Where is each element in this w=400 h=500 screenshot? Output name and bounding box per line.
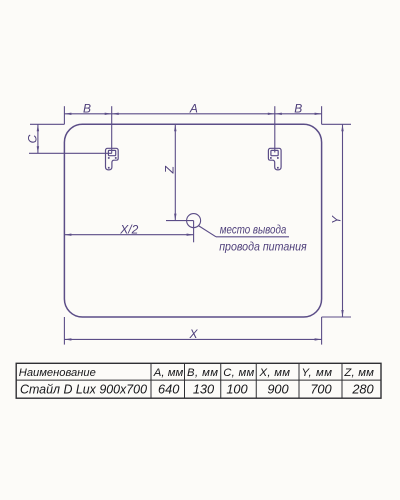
circle center vertical xyxy=(193,221,195,243)
C dimension line xyxy=(37,124,39,153)
X right extension line xyxy=(321,317,323,345)
extension line left edge xyxy=(63,106,65,124)
Y top extension line xyxy=(322,123,351,125)
mirror outline xyxy=(64,124,321,317)
svg-text:640: 640 xyxy=(158,382,180,397)
svg-text:Y: Y xyxy=(329,215,343,224)
table grid xyxy=(16,363,381,398)
arrow C top xyxy=(37,124,39,131)
svg-text:место вывода: место вывода xyxy=(220,225,286,237)
arrow B2 right xyxy=(315,113,322,115)
Y dimension line xyxy=(342,124,344,317)
svg-text:Y, мм: Y, мм xyxy=(302,367,333,379)
svg-text:B, мм: B, мм xyxy=(187,367,218,379)
leader diagonal xyxy=(198,226,216,237)
Y bottom extension line xyxy=(322,316,351,318)
svg-text:провода питания: провода питания xyxy=(219,242,307,254)
svg-text:280: 280 xyxy=(351,382,374,397)
svg-text:C: C xyxy=(26,134,40,143)
C top extension line xyxy=(30,123,64,125)
right bracket (mirrored) xyxy=(268,148,281,170)
svg-text:130: 130 xyxy=(193,382,215,397)
arrow C bottom xyxy=(37,146,39,153)
X left extension line xyxy=(63,317,65,345)
svg-text:B: B xyxy=(294,102,302,116)
arrow Z top xyxy=(174,124,176,131)
leader underline xyxy=(216,236,289,238)
arrow B right / A left xyxy=(105,113,112,115)
X/2 dimension line xyxy=(64,234,193,236)
arrow Y bottom xyxy=(341,310,343,317)
svg-text:Наименование: Наименование xyxy=(19,367,96,379)
Z bottom extension line xyxy=(166,220,194,222)
extension line right edge xyxy=(321,106,323,124)
svg-text:Z: Z xyxy=(162,165,176,174)
svg-text:C, мм: C, мм xyxy=(223,367,254,379)
Z dimension line xyxy=(174,124,176,220)
extension line left bracket xyxy=(111,106,113,153)
X dimension line xyxy=(64,338,321,340)
svg-text:Z, мм: Z, мм xyxy=(343,367,374,379)
arrow A right / B2 left xyxy=(268,113,275,115)
arrow X/2 right xyxy=(187,234,194,236)
svg-text:700: 700 xyxy=(310,382,332,397)
arrow X/2 left xyxy=(64,234,71,236)
svg-text:900: 900 xyxy=(267,382,289,397)
svg-text:Стайл D Lux 900x700: Стайл D Lux 900x700 xyxy=(20,382,148,397)
svg-text:X: X xyxy=(188,327,198,341)
left bracket xyxy=(106,148,119,170)
power outlet circle xyxy=(187,214,201,228)
svg-text:X, мм: X, мм xyxy=(259,367,291,379)
arrow X right xyxy=(315,338,322,340)
arrow B left xyxy=(64,113,71,115)
top dimension line A/B xyxy=(64,113,321,115)
svg-text:100: 100 xyxy=(226,382,248,397)
arrow Y top xyxy=(341,124,343,131)
arrow Z bottom xyxy=(174,214,176,221)
svg-text:X/2: X/2 xyxy=(119,223,138,237)
svg-text:A, мм: A, мм xyxy=(153,367,184,379)
extension line right bracket xyxy=(274,106,276,152)
arrow X left xyxy=(64,338,71,340)
svg-text:A: A xyxy=(189,102,198,116)
svg-text:B: B xyxy=(83,102,91,116)
C bottom extension line xyxy=(29,152,112,154)
